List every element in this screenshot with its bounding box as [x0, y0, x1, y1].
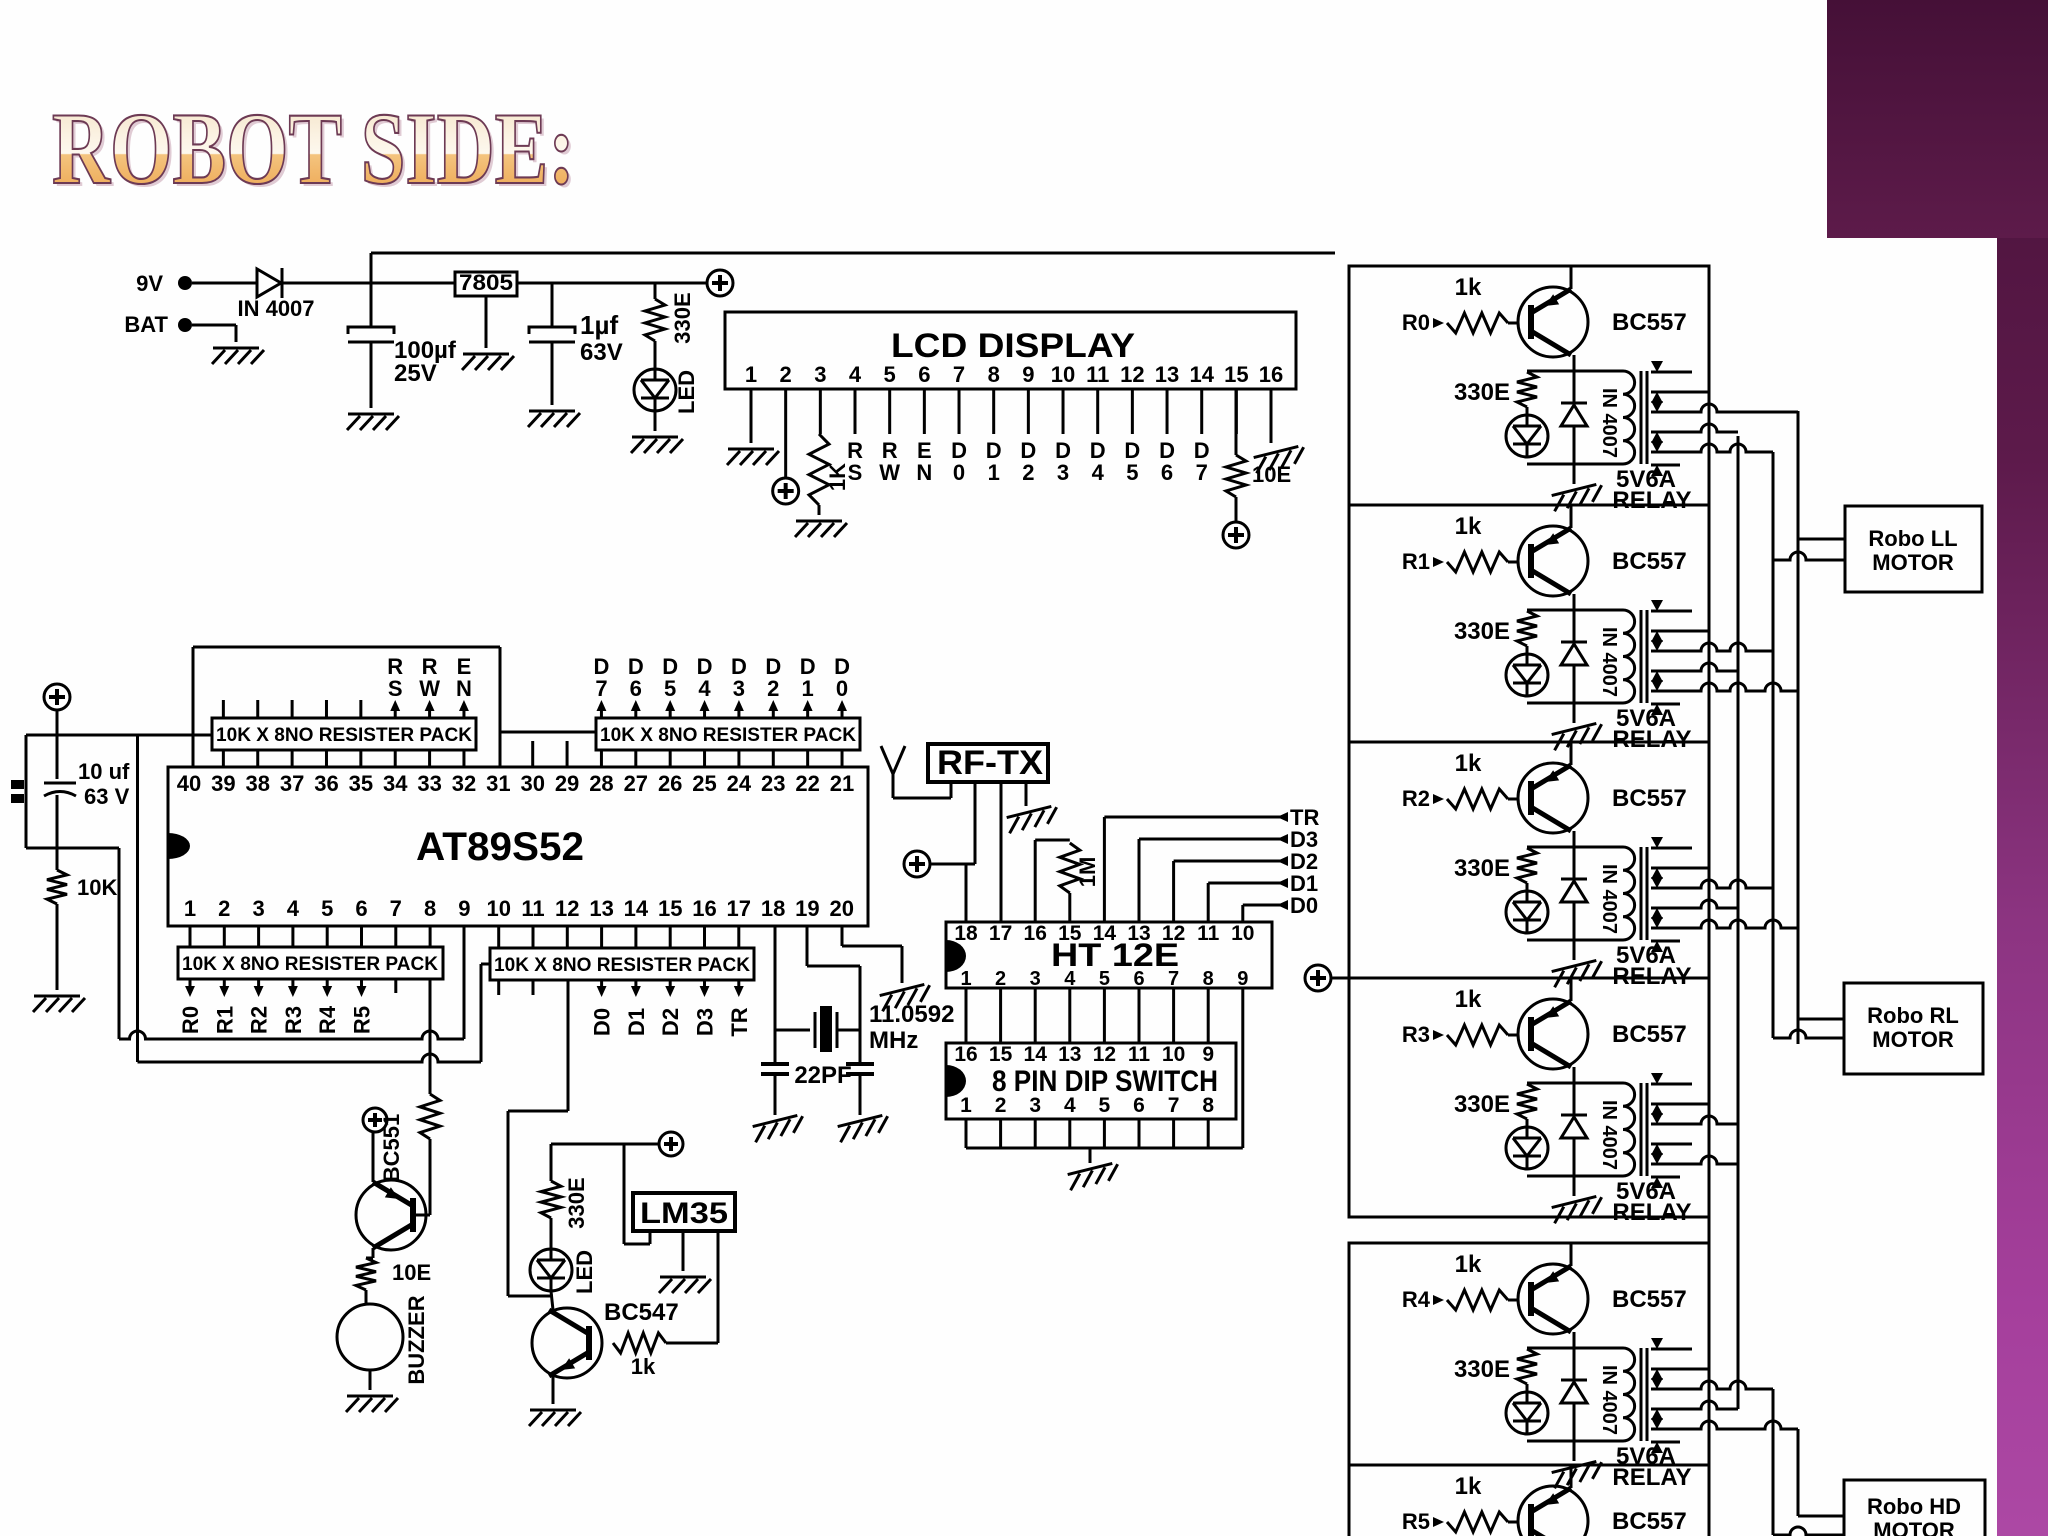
- motor Robo LL MOTOR: [1845, 506, 1982, 592]
- svg-text:15: 15: [989, 1043, 1013, 1066]
- wire 9V to diode: [192, 282, 256, 285]
- ground (LCD pin16): [1253, 445, 1307, 473]
- svg-text:330E: 330E: [670, 292, 695, 343]
- wire RF-TX pin to +5V: [974, 782, 977, 864]
- wire HT12E to D2: [1174, 849, 1319, 922]
- transistor BC557 (R4): [1518, 1243, 1687, 1334]
- wire HT12E to D0: [1243, 893, 1318, 922]
- svg-text:MHz: MHz: [869, 1027, 918, 1054]
- svg-text:7: 7: [595, 676, 607, 701]
- wire HT12E to TR: [1104, 805, 1319, 922]
- svg-text:40: 40: [177, 771, 201, 796]
- svg-text:1k: 1k: [1455, 513, 1482, 540]
- svg-text:1k: 1k: [1455, 1473, 1482, 1500]
- ground (LM35): [659, 1277, 711, 1293]
- IC U1 AT89S52: [168, 767, 868, 926]
- svg-text:2: 2: [1022, 460, 1034, 485]
- svg-text:1: 1: [745, 362, 757, 387]
- ground (battery): [212, 348, 264, 364]
- node +5V (LCD pin15): [1223, 522, 1249, 548]
- wire pin8 to BC551 base: [429, 979, 432, 1094]
- wire 1K to ground: [818, 505, 821, 515]
- svg-text:16: 16: [1024, 922, 1047, 945]
- svg-text:5: 5: [884, 362, 896, 387]
- ground (relay R0): [1551, 483, 1605, 511]
- node +5V (RF-TX): [904, 851, 930, 877]
- wire HT12E to D3: [1139, 827, 1318, 922]
- wire diode to 7805: [283, 282, 455, 285]
- svg-text:11.0592: 11.0592: [869, 1001, 954, 1028]
- svg-text:9: 9: [1202, 1043, 1214, 1066]
- svg-text:6: 6: [1133, 1094, 1145, 1117]
- svg-text:29: 29: [555, 771, 579, 796]
- RP2 arrows D7-D0: [596, 700, 846, 718]
- relay contacts (R4): [1651, 1338, 1798, 1453]
- ground (DIP): [1067, 1162, 1121, 1190]
- label 5V6A RELAY (R1): [1612, 705, 1691, 753]
- labels D7-D0 (RP2): [593, 654, 849, 701]
- wire C2 to ground: [551, 342, 554, 405]
- svg-text:MOTOR: MOTOR: [1872, 550, 1954, 575]
- svg-text:3: 3: [733, 676, 745, 701]
- relay contacts (R2): [1651, 837, 1798, 952]
- wire relay coil to ground (R0): [1573, 464, 1576, 484]
- svg-text:21: 21: [830, 771, 854, 796]
- svg-text:10 uf: 10 uf: [78, 759, 130, 784]
- relay block 0 box: [1349, 266, 1709, 505]
- svg-text:1k: 1k: [631, 1354, 656, 1379]
- svg-text:10K X 8NO RESISTER PACK: 10K X 8NO RESISTER PACK: [494, 955, 750, 976]
- svg-text:7: 7: [1168, 968, 1179, 990]
- RP1 top stubs: [223, 700, 360, 718]
- wire C1 to ground: [370, 342, 373, 408]
- resistor 10K (reset): [47, 870, 117, 904]
- svg-text:8: 8: [988, 362, 1000, 387]
- wire reset node to pin9 run: [118, 848, 121, 1039]
- wire BAT- to ground: [192, 325, 236, 342]
- svg-text:2: 2: [995, 968, 1006, 990]
- ground (RF-TX): [1006, 805, 1060, 833]
- resistor 1k (R4): [1402, 1251, 1519, 1312]
- svg-text:1: 1: [802, 676, 814, 701]
- svg-text:13: 13: [589, 896, 613, 921]
- node +5V (power): [707, 270, 733, 296]
- svg-text:12: 12: [1162, 922, 1185, 945]
- resistor 1k (R5): [1402, 1473, 1519, 1534]
- svg-text:D3: D3: [693, 1008, 718, 1036]
- ground (C2): [528, 411, 580, 427]
- svg-text:15: 15: [1224, 362, 1248, 387]
- wire HD motor lower: [1773, 1527, 1844, 1535]
- svg-text:R4: R4: [1402, 1287, 1431, 1312]
- svg-text:18: 18: [954, 922, 978, 945]
- svg-text:24: 24: [727, 771, 752, 796]
- svg-text:BC557: BC557: [1612, 548, 1687, 575]
- svg-text:13: 13: [1127, 922, 1150, 945]
- svg-text:11: 11: [1197, 922, 1220, 945]
- relay contacts (R1): [1651, 600, 1798, 715]
- LCD pin stubs 4-15: [820, 389, 1236, 434]
- svg-text:6: 6: [918, 362, 930, 387]
- svg-text:27: 27: [624, 771, 648, 796]
- labels RS RW EN: [387, 654, 472, 701]
- resistor 1K (LCD contrast): [809, 434, 850, 505]
- RP4 stubs to pins 10-17: [499, 926, 739, 948]
- svg-text:12: 12: [1093, 1043, 1116, 1066]
- wire bus A (relay right edge): [1708, 266, 1711, 1536]
- wire bus C2 (HD): [1772, 1389, 1775, 1535]
- svg-text:R2: R2: [247, 1006, 272, 1034]
- svg-text:11: 11: [521, 896, 544, 921]
- resistor 1k (R1): [1402, 513, 1519, 574]
- svg-text:1k: 1k: [1455, 274, 1482, 301]
- svg-text:2: 2: [218, 896, 230, 921]
- capacitor C5 10uf 63V: [11, 735, 130, 809]
- svg-text:BUZZER: BUZZER: [404, 1295, 429, 1384]
- svg-text:Robo HD: Robo HD: [1867, 1494, 1961, 1519]
- svg-text:6: 6: [355, 896, 367, 921]
- resistor 10E (LCD backlight): [1226, 389, 1291, 497]
- ground (LCD pin1): [727, 449, 779, 465]
- module RF-TX: [928, 744, 1048, 782]
- wire +5V rail (LM35): [551, 1144, 659, 1181]
- wire HT12E to D1: [1208, 871, 1318, 922]
- svg-text:33: 33: [417, 771, 441, 796]
- transistor BC557 (R1): [1518, 505, 1687, 596]
- svg-text:330E: 330E: [1454, 1091, 1510, 1118]
- wire LED2 to BC547: [551, 1291, 553, 1310]
- svg-text:4: 4: [1064, 968, 1076, 990]
- svg-text:2: 2: [995, 1094, 1007, 1117]
- svg-text:1k: 1k: [1455, 1251, 1482, 1278]
- node junction C1: [370, 253, 373, 328]
- wire pin12 to LED circuit: [508, 980, 568, 1296]
- motor Robo RL MOTOR: [1844, 983, 1983, 1074]
- svg-text:R1: R1: [1402, 549, 1430, 574]
- svg-text:14: 14: [624, 896, 649, 921]
- wire RF-TX data to HT12E pin17: [1000, 782, 1003, 922]
- svg-text:IN 4007: IN 4007: [1598, 864, 1620, 934]
- capacitor C4 22PF: [846, 1064, 874, 1074]
- wire pin40 to pin31 VCC loop: [193, 647, 500, 767]
- transistor BC557 (R2): [1518, 742, 1687, 833]
- wire C3 to ground: [774, 1074, 777, 1115]
- svg-text:BAT: BAT: [124, 312, 168, 337]
- transistor BC557 (R5): [1518, 1465, 1687, 1536]
- svg-text:IN 4007: IN 4007: [1598, 627, 1620, 697]
- wire RL motor upper: [1798, 1018, 1844, 1021]
- DIP bottom pin numbers 1-8: [960, 1094, 1214, 1117]
- svg-text:14: 14: [1189, 362, 1214, 387]
- svg-text:1K: 1K: [825, 463, 850, 491]
- wire LL motor upper: [1798, 538, 1845, 541]
- svg-text:N: N: [916, 460, 932, 485]
- svg-text:IN 4007: IN 4007: [237, 296, 314, 321]
- svg-text:RELAY: RELAY: [1612, 487, 1691, 514]
- resistor R 330E (power LED): [645, 283, 695, 344]
- svg-text:4: 4: [1092, 460, 1105, 485]
- relay 5V6A (R4): [1454, 1348, 1647, 1441]
- ground (pin20): [879, 983, 933, 1011]
- svg-text:RELAY: RELAY: [1612, 726, 1691, 753]
- wire RL motor lower: [1773, 1030, 1844, 1038]
- node +5V (LCD pin2): [773, 478, 799, 504]
- wire +5V to BC551: [373, 1114, 404, 1182]
- wire +5V to HT12E pin18: [930, 863, 975, 866]
- labels R0-R5 (RP3): [178, 1005, 375, 1034]
- ground (buzzer): [346, 1396, 398, 1412]
- svg-text:AT89S52: AT89S52: [416, 825, 584, 869]
- ground (relay R2): [1551, 959, 1605, 987]
- svg-text:9: 9: [1237, 968, 1248, 990]
- svg-text:R2: R2: [1402, 786, 1430, 811]
- svg-text:MOTOR: MOTOR: [1873, 1518, 1955, 1536]
- wire LL motor lower: [1773, 552, 1845, 560]
- wire reset rail: [26, 710, 212, 848]
- ground (C3): [752, 1114, 806, 1142]
- svg-text:BC557: BC557: [1612, 1286, 1687, 1313]
- svg-text:BC557: BC557: [1612, 1021, 1687, 1048]
- wire BC547 emitter to ground: [552, 1376, 555, 1404]
- wire vertical to pin-10 run: [136, 735, 139, 1062]
- svg-text:36: 36: [314, 771, 338, 796]
- wire resistor to base: [413, 1139, 430, 1215]
- svg-text:LCD DISPLAY: LCD DISPLAY: [891, 327, 1135, 365]
- resister pack RP2 10K X 8NO: [596, 718, 860, 750]
- wire HD motor upper: [1798, 1515, 1844, 1518]
- svg-text:BC547: BC547: [604, 1299, 679, 1326]
- svg-text:16: 16: [1259, 362, 1283, 387]
- relay block 3 box: [1349, 978, 1709, 1217]
- HT12E bottom pin numbers 1-9: [960, 968, 1248, 990]
- svg-text:Robo RL: Robo RL: [1867, 1003, 1959, 1028]
- svg-text:RELAY: RELAY: [1612, 1199, 1691, 1226]
- svg-text:3: 3: [814, 362, 826, 387]
- node +5V (reset): [44, 684, 70, 710]
- buzzer BZ1: [337, 1295, 429, 1384]
- svg-text:17: 17: [727, 896, 751, 921]
- RP3 arrows R0-R5: [185, 979, 366, 997]
- svg-text:LED: LED: [572, 1250, 597, 1294]
- ground (1K): [795, 521, 847, 537]
- wire collector (R0): [1573, 355, 1576, 387]
- node +5V (LM35): [659, 1132, 683, 1156]
- svg-text:IN 4007: IN 4007: [1598, 388, 1620, 458]
- IC U3 HT 12E: [946, 922, 1272, 988]
- wire pin19 to crystal: [807, 926, 860, 1064]
- label 5V6A RELAY (R2): [1612, 942, 1691, 990]
- svg-text:7: 7: [1196, 460, 1208, 485]
- svg-text:IN 4007: IN 4007: [1598, 1100, 1620, 1170]
- svg-text:R1: R1: [212, 1006, 237, 1034]
- svg-text:10K: 10K: [77, 875, 117, 900]
- svg-text:D1: D1: [624, 1008, 649, 1036]
- svg-text:10K X 8NO RESISTER PACK: 10K X 8NO RESISTER PACK: [600, 725, 856, 746]
- svg-text:1k: 1k: [1455, 986, 1482, 1013]
- svg-text:12: 12: [1120, 362, 1144, 387]
- svg-text:TR: TR: [727, 1007, 752, 1036]
- svg-text:7: 7: [390, 896, 402, 921]
- crystal X1 11.0592 MHz: [775, 1001, 954, 1054]
- svg-text:W: W: [419, 676, 440, 701]
- wire relay coil to ground (R1): [1573, 703, 1576, 723]
- svg-text:LED: LED: [674, 370, 699, 414]
- svg-text:13: 13: [1058, 1043, 1081, 1066]
- svg-text:14: 14: [1024, 1043, 1048, 1066]
- battery 9V BAT terminals: [124, 271, 192, 337]
- svg-text:MOTOR: MOTOR: [1872, 1027, 1954, 1052]
- svg-text:RELAY: RELAY: [1612, 1464, 1691, 1491]
- DIP bottom bus: [966, 1119, 1243, 1163]
- wire reset to AT89S52 pin9: [119, 926, 464, 1039]
- svg-text:0: 0: [953, 460, 965, 485]
- svg-text:14: 14: [1093, 922, 1117, 945]
- regulator U2 7805: [455, 270, 517, 296]
- svg-text:25: 25: [692, 771, 716, 796]
- purple corner block: [1827, 0, 2048, 238]
- svg-text:ROBOT SIDE:: ROBOT SIDE:: [52, 92, 575, 206]
- svg-text:BC551: BC551: [379, 1114, 404, 1182]
- relay 5V6A (R2): [1454, 847, 1647, 940]
- svg-text:LM35: LM35: [640, 1197, 728, 1230]
- RP3 pin7 stub: [394, 979, 397, 993]
- svg-text:3: 3: [1057, 460, 1069, 485]
- svg-text:BC557: BC557: [1612, 1508, 1687, 1535]
- svg-text:10: 10: [1051, 362, 1075, 387]
- relay 5V6A (R3): [1454, 1083, 1647, 1176]
- wire 7805 to ground: [485, 296, 488, 348]
- svg-text:1: 1: [960, 968, 971, 990]
- resistor (pin8-BC551): [420, 1094, 440, 1139]
- LED LED2: [530, 1249, 597, 1294]
- svg-text:1k: 1k: [1455, 750, 1482, 777]
- svg-text:35: 35: [349, 771, 373, 796]
- wire LM35 vcc: [624, 1144, 650, 1244]
- wire relay coil to ground (R3): [1573, 1176, 1576, 1196]
- ground (7805): [462, 354, 514, 370]
- label 5V6A RELAY (R3): [1612, 1178, 1691, 1226]
- relay 5V6A (R1): [1454, 610, 1647, 703]
- relay block 1 box: [1349, 505, 1709, 742]
- svg-text:15: 15: [658, 896, 682, 921]
- svg-text:63 V: 63 V: [84, 784, 130, 809]
- svg-text:16: 16: [692, 896, 716, 921]
- ground (BC547): [529, 1410, 581, 1426]
- wire pin20 to ground: [842, 926, 902, 983]
- svg-text:330E: 330E: [1454, 379, 1510, 406]
- svg-text:8: 8: [1202, 1094, 1214, 1117]
- IC LCD DISPLAY module: [725, 312, 1296, 389]
- wire BC551 to 10E: [366, 1248, 373, 1258]
- svg-text:S: S: [848, 460, 863, 485]
- relay contacts (R0): [1651, 361, 1798, 476]
- svg-text:R5: R5: [1402, 1509, 1430, 1534]
- wire buzzer to ground: [369, 1370, 372, 1390]
- svg-text:D2: D2: [658, 1008, 683, 1036]
- capacitor C2 1uf 63V: [529, 283, 623, 366]
- resistor 10E (buzzer): [356, 1258, 431, 1290]
- svg-text:5: 5: [1099, 968, 1110, 990]
- svg-text:1: 1: [184, 896, 196, 921]
- wire RF-TX gnd: [1025, 782, 1028, 806]
- svg-text:10: 10: [486, 896, 510, 921]
- svg-text:28: 28: [589, 771, 613, 796]
- svg-text:9: 9: [458, 896, 470, 921]
- wires HT12E to DIP: [966, 988, 1208, 1043]
- svg-text:1: 1: [960, 1094, 972, 1117]
- wire pin18 to crystal: [774, 926, 777, 1064]
- resistor 330E (LM35 LED): [541, 1177, 589, 1228]
- svg-text:23: 23: [761, 771, 785, 796]
- AT89S52 top pin numbers 40-21: [177, 771, 855, 796]
- wire collector (R1): [1573, 594, 1576, 626]
- svg-text:6: 6: [1161, 460, 1173, 485]
- svg-text:18: 18: [761, 896, 785, 921]
- svg-text:R0: R0: [178, 1006, 203, 1034]
- ground (relay R4): [1551, 1460, 1605, 1488]
- wire 10E to +5V: [1235, 497, 1238, 522]
- AT89S52 bottom pin numbers 1-20: [184, 896, 854, 921]
- wire LCD pin2 to +5V: [784, 389, 787, 478]
- relay block 4 box: [1349, 1243, 1709, 1465]
- svg-text:26: 26: [658, 771, 682, 796]
- svg-text:5: 5: [321, 896, 333, 921]
- svg-text:2: 2: [780, 362, 792, 387]
- svg-text:17: 17: [989, 922, 1012, 945]
- ground (C1): [347, 414, 399, 430]
- wire bus B: [1737, 436, 1740, 1409]
- svg-text:0: 0: [836, 676, 848, 701]
- ground (LED1): [631, 437, 683, 453]
- svg-text:8: 8: [424, 896, 436, 921]
- svg-text:32: 32: [452, 771, 476, 796]
- svg-text:4: 4: [698, 676, 711, 701]
- wire 10E to buzzer: [366, 1290, 370, 1304]
- svg-text:9: 9: [1022, 362, 1034, 387]
- DIP top pin numbers 16-9: [954, 1043, 1214, 1066]
- LCD pin numbers 1-16: [745, 362, 1283, 387]
- svg-text:330E: 330E: [564, 1177, 589, 1228]
- wire C4 to ground: [859, 1074, 862, 1115]
- HT12E top pin numbers 18-10: [954, 922, 1254, 945]
- svg-text:D0: D0: [1290, 893, 1318, 918]
- svg-text:4: 4: [1064, 1094, 1076, 1117]
- svg-text:13: 13: [1155, 362, 1179, 387]
- relay block 5 box: [1349, 1465, 1709, 1536]
- svg-text:Robo LL: Robo LL: [1868, 526, 1957, 551]
- transistor Q1 BC551: [356, 1180, 426, 1250]
- LCD signal labels RS RW EN D0-D7: [847, 438, 1210, 485]
- svg-text:38: 38: [245, 771, 269, 796]
- svg-text:11: 11: [1086, 362, 1109, 387]
- wire 10K to ground: [56, 904, 59, 990]
- svg-text:34: 34: [383, 771, 408, 796]
- wire 7805 out to plus: [517, 282, 707, 285]
- svg-text:19: 19: [795, 896, 819, 921]
- svg-text:11: 11: [1128, 1043, 1151, 1066]
- svg-text:22PF: 22PF: [794, 1062, 851, 1089]
- svg-text:10K X 8NO RESISTER PACK: 10K X 8NO RESISTER PACK: [182, 954, 438, 975]
- wire 330E to LED1: [654, 341, 657, 369]
- svg-text:1M: 1M: [1075, 857, 1100, 888]
- wire relay coil to ground (R2): [1573, 940, 1576, 960]
- svg-text:63V: 63V: [580, 339, 623, 366]
- resistor 1k (R2): [1402, 750, 1519, 811]
- wire collector (R2): [1573, 831, 1576, 863]
- wire to resister pack4: [138, 964, 491, 1062]
- svg-text:7805: 7805: [459, 270, 513, 295]
- svg-text:10E: 10E: [392, 1260, 431, 1285]
